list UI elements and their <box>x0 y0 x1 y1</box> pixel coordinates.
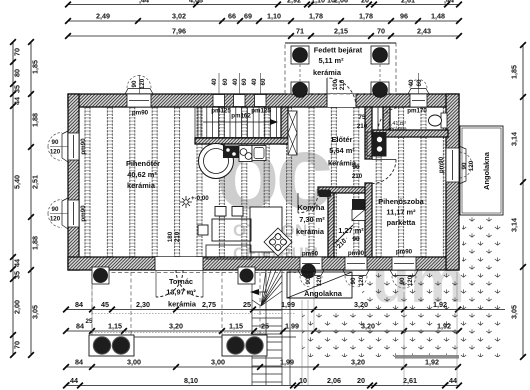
svg-text:parketta: parketta <box>387 218 417 227</box>
svg-text:Angolakna: Angolakna <box>482 151 491 190</box>
svg-text:pm90: pm90 <box>302 251 319 258</box>
top row1 <box>65 0 462 7</box>
svg-text:100: 100 <box>332 79 339 90</box>
svg-text:90: 90 <box>52 139 59 146</box>
svg-text:40: 40 <box>408 79 415 86</box>
svg-text:,44: ,44 <box>444 0 454 5</box>
svg-text:3,20: 3,20 <box>169 322 183 331</box>
bottom row A <box>63 300 505 312</box>
window left upper pm90 <box>48 131 87 162</box>
svg-text:8,10: 8,10 <box>184 376 198 385</box>
svg-text:+-0,00: +-0,00 <box>191 195 209 202</box>
boiler black <box>352 199 365 210</box>
svg-text:1,92: 1,92 <box>433 300 447 309</box>
window left lower pm90 <box>48 198 87 229</box>
svg-text:90: 90 <box>399 277 406 284</box>
svg-text:3,00: 3,00 <box>211 358 225 367</box>
svg-text:pm90: pm90 <box>396 249 413 256</box>
column at angolakna window <box>301 264 316 279</box>
svg-text:1,88: 1,88 <box>31 236 40 250</box>
svg-text:25: 25 <box>261 322 269 331</box>
shaft with X <box>288 111 297 155</box>
chair left <box>198 225 208 235</box>
toilet <box>429 113 448 128</box>
svg-text:120: 120 <box>50 149 61 156</box>
door konyha <box>298 193 318 213</box>
ceiling beam stripes <box>83 107 447 257</box>
konyha counter appliance <box>319 190 332 198</box>
wall wc-west <box>383 107 390 130</box>
svg-text:kerámia: kerámia <box>127 181 156 190</box>
svg-text:1,99: 1,99 <box>281 300 295 309</box>
svg-text:40: 40 <box>251 78 258 85</box>
svg-text:40: 40 <box>211 78 218 85</box>
svg-text:pm90: pm90 <box>80 205 87 222</box>
svg-text:120: 120 <box>139 78 146 89</box>
svg-text:pm90: pm90 <box>80 138 87 155</box>
floor diamond <box>264 228 292 256</box>
bottom row C <box>63 358 461 370</box>
svg-text:2,75: 2,75 <box>202 300 216 309</box>
svg-text:1,10: 1,10 <box>311 0 325 5</box>
svg-text:3,20: 3,20 <box>354 300 368 309</box>
svg-text:kerámia: kerámia <box>296 227 325 236</box>
wall bottom <box>68 257 459 270</box>
svg-text:180: 180 <box>167 231 174 242</box>
svg-text:,44: ,44 <box>68 376 78 385</box>
svg-text:70: 70 <box>13 48 22 56</box>
svg-text:1,48: 1,48 <box>431 12 445 21</box>
svg-text:1,99: 1,99 <box>280 358 294 367</box>
svg-text:3,14: 3,14 <box>510 132 519 146</box>
svg-text:5,40: 5,40 <box>13 175 22 189</box>
svg-text:Angolakna: Angolakna <box>304 289 343 298</box>
svg-text:11,17 m²: 11,17 m² <box>386 208 416 217</box>
kitchen sink <box>239 146 252 162</box>
svg-text:1,85: 1,85 <box>31 60 40 74</box>
level mark +-0,00 <box>180 195 209 208</box>
svg-text:7,30 m²: 7,30 m² <box>299 215 325 224</box>
svg-text:,44: ,44 <box>447 376 457 385</box>
svg-text:5,64 m²: 5,64 m² <box>329 146 355 155</box>
grass areas <box>462 217 503 271</box>
svg-text:3,02: 3,02 <box>172 12 186 21</box>
right chain <box>510 42 526 360</box>
bottom row B <box>63 322 462 334</box>
svg-text:84: 84 <box>75 358 83 367</box>
door main entrance (top wall) <box>327 78 356 107</box>
gray curb bar <box>395 355 459 359</box>
wall wc-south <box>372 130 448 137</box>
svg-text:120: 120 <box>468 160 475 171</box>
svg-text:3,05: 3,05 <box>510 305 519 319</box>
wall eloter-pihenoszoba upper <box>365 107 372 159</box>
svg-text:Pihenőszoba: Pihenőszoba <box>378 197 424 206</box>
svg-text:Konyha: Konyha <box>297 203 325 212</box>
wall left <box>68 94 79 270</box>
svg-text:3,05: 3,05 <box>31 305 40 319</box>
svg-text:120: 120 <box>50 216 61 223</box>
svg-text:210: 210 <box>339 79 346 90</box>
svg-text:3,00: 3,00 <box>127 358 141 367</box>
svg-text:1,78: 1,78 <box>309 12 323 21</box>
svg-text:120: 120 <box>407 275 414 286</box>
svg-text:44: 44 <box>13 97 22 105</box>
svg-text:210: 210 <box>174 231 181 242</box>
svg-text:210: 210 <box>357 123 368 130</box>
wall right <box>446 94 459 270</box>
svg-text:40,62 m²: 40,62 m² <box>127 170 157 179</box>
svg-text:90: 90 <box>52 206 59 213</box>
svg-text:2,06: 2,06 <box>327 376 341 385</box>
svg-text:2,43: 2,43 <box>417 27 431 36</box>
svg-text:2,61: 2,61 <box>403 376 417 385</box>
svg-text:kerámia: kerámia <box>168 300 197 309</box>
svg-text:pm90: pm90 <box>348 250 365 257</box>
column squares bottom <box>291 82 309 94</box>
kitchen stove <box>223 146 239 159</box>
svg-text:210: 210 <box>352 173 363 180</box>
svg-text:pm125: pm125 <box>211 108 231 115</box>
svg-text:kerámia: kerámia <box>387 127 406 133</box>
svg-text:Pihenőtér: Pihenőtér <box>126 159 160 168</box>
svg-text:84: 84 <box>75 300 83 309</box>
svg-text:2,92: 2,92 <box>287 0 301 5</box>
stove cylinder (kalyha) <box>199 144 234 179</box>
svg-text:75: 75 <box>359 114 366 121</box>
window bottom bath pm90 <box>343 250 369 287</box>
column mid-right <box>238 267 255 284</box>
svg-text:20: 20 <box>357 376 365 385</box>
column mid-left <box>92 267 109 284</box>
windows above stair 40/60 slots <box>211 73 271 120</box>
top row2 <box>65 12 462 24</box>
svg-text:pm90: pm90 <box>438 156 445 173</box>
svg-text:90: 90 <box>353 236 360 243</box>
svg-text:84: 84 <box>76 322 84 331</box>
svg-text:90: 90 <box>350 277 357 284</box>
svg-text:120: 120 <box>358 275 365 286</box>
svg-text:60: 60 <box>416 79 423 86</box>
svg-text:kerámia: kerámia <box>328 159 357 168</box>
window bottom konyha pm90 <box>298 251 324 288</box>
svg-text:60: 60 <box>222 78 229 85</box>
wc vestibule clear <box>372 107 390 131</box>
extension lines bottom <box>92 272 457 385</box>
svg-text:66: 66 <box>228 12 236 21</box>
svg-text:90: 90 <box>131 80 138 87</box>
svg-text:1,27 m²: 1,27 m² <box>338 226 364 235</box>
wall eloter-konyha <box>318 187 365 193</box>
svg-text:2,00: 2,00 <box>13 300 22 314</box>
svg-text:2,51: 2,51 <box>31 175 40 189</box>
svg-text:2,30: 2,30 <box>136 300 150 309</box>
window wc 40/60 <box>407 73 429 115</box>
svg-text:3,14: 3,14 <box>510 218 519 232</box>
svg-text:71: 71 <box>296 27 304 36</box>
svg-text:Fedett bejárat: Fedett bejárat <box>314 46 363 55</box>
svg-text:1,15: 1,15 <box>108 322 122 331</box>
svg-text:1,78: 1,78 <box>359 12 373 21</box>
svg-text:20: 20 <box>361 0 369 5</box>
svg-text:60: 60 <box>241 78 248 85</box>
base block left <box>89 335 134 356</box>
window top-left pm90 <box>125 75 153 117</box>
svg-text:44: 44 <box>13 259 22 267</box>
window right pm90 <box>438 146 475 184</box>
left chain L2 <box>28 39 39 358</box>
bottom row D <box>63 376 462 388</box>
svg-text:2,15: 2,15 <box>334 27 348 36</box>
chimney <box>367 132 373 156</box>
island rect <box>250 207 282 252</box>
svg-text:1,99: 1,99 <box>285 322 299 331</box>
svg-text:2,49: 2,49 <box>96 12 110 21</box>
wall konyha-bath <box>328 193 334 257</box>
svg-text:7,96: 7,96 <box>172 27 186 36</box>
svg-text:45: 45 <box>101 300 109 309</box>
svg-text:4,08: 4,08 <box>189 0 203 5</box>
table <box>212 219 251 241</box>
svg-text:96: 96 <box>400 12 408 21</box>
window bottom pihenoszoba pm90 <box>390 249 418 289</box>
svg-text:120: 120 <box>316 275 323 286</box>
svg-text:2,61: 2,61 <box>401 0 415 5</box>
svg-text:60: 60 <box>260 78 267 85</box>
wall balustrade under stair <box>195 138 296 144</box>
svg-text:40: 40 <box>232 78 239 85</box>
svg-text:3,20: 3,20 <box>361 322 375 331</box>
svg-text:2,06: 2,06 <box>334 0 348 5</box>
svg-text:1,88: 1,88 <box>31 113 40 127</box>
svg-text:69: 69 <box>244 12 252 21</box>
base block right <box>222 335 267 356</box>
bath sink <box>352 210 365 221</box>
svg-text:pm90: pm90 <box>132 110 149 117</box>
chair top2 <box>232 207 243 217</box>
chair top1 <box>215 207 226 217</box>
wall eloter-pihenoszoba lower <box>365 183 372 257</box>
svg-text:25: 25 <box>243 300 251 309</box>
left chain L1 <box>10 39 21 358</box>
watermark OC logo <box>216 115 465 316</box>
svg-text:80: 80 <box>13 69 22 77</box>
svg-text:pm170: pm170 <box>407 108 427 115</box>
svg-text:13,97 m²: 13,97 m² <box>166 288 196 297</box>
door pihenoszoba 90/210 <box>352 160 396 184</box>
svg-text:kerámia: kerámia <box>313 68 342 77</box>
svg-text:35: 35 <box>13 85 22 93</box>
svg-text:35: 35 <box>13 271 22 279</box>
wall stair-east <box>281 107 288 144</box>
svg-text:70: 70 <box>377 27 385 36</box>
svg-text:10: 10 <box>299 376 307 385</box>
svg-text:5,11 m²: 5,11 m² <box>318 56 344 65</box>
column squares top <box>291 46 309 64</box>
svg-text:Tornác: Tornác <box>169 277 193 286</box>
appliance <box>252 146 266 161</box>
top row3 <box>65 27 462 39</box>
svg-text:1,92: 1,92 <box>425 358 439 367</box>
svg-text:1,92: 1,92 <box>437 322 451 331</box>
svg-text:Előtér: Előtér <box>332 135 353 144</box>
svg-text:,44: ,44 <box>139 0 149 5</box>
wall top <box>68 94 459 107</box>
door double tornac <box>155 231 203 297</box>
svg-text:1,10: 1,10 <box>267 12 281 21</box>
door wc 75/210 <box>357 107 402 131</box>
svg-text:3,20: 3,20 <box>351 358 365 367</box>
bench <box>206 245 251 259</box>
door bath diagonal <box>333 225 360 250</box>
svg-text:pm125: pm125 <box>251 108 271 115</box>
svg-text:1,85: 1,85 <box>510 65 519 79</box>
svg-text:70: 70 <box>13 341 22 349</box>
svg-text:1,15: 1,15 <box>229 322 243 331</box>
